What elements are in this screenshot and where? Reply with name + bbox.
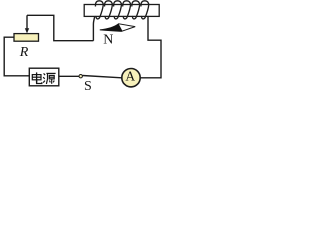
svg-text:A: A xyxy=(125,69,135,84)
wire from rheostat left down and along bottom to battery xyxy=(4,37,29,76)
wire battery to switch xyxy=(59,75,79,77)
battery box (power supply) xyxy=(29,68,59,86)
coil turns xyxy=(95,1,148,19)
label 电 (dian) xyxy=(32,72,42,83)
wire from ammeter up right side to solenoid right lead xyxy=(140,16,161,77)
compass needle N half (black) xyxy=(100,24,123,32)
wiper arrow of rheostat xyxy=(26,15,28,29)
resistor R (rheostat body) xyxy=(14,34,39,42)
svg-text:N: N xyxy=(103,33,113,48)
wire from wiper over to solenoid left lead xyxy=(27,15,93,40)
label 源 (yuan) xyxy=(43,73,55,84)
svg-text:S: S xyxy=(84,79,92,93)
wire solenoid left lead xyxy=(93,5,96,41)
switch blade / wire to ammeter xyxy=(83,76,122,78)
ammeter A xyxy=(122,69,140,87)
switch S pivot xyxy=(79,75,82,78)
compass needle outline xyxy=(100,24,135,32)
solenoid core frame xyxy=(84,5,159,17)
svg-text:R: R xyxy=(19,45,29,60)
background xyxy=(0,0,165,93)
